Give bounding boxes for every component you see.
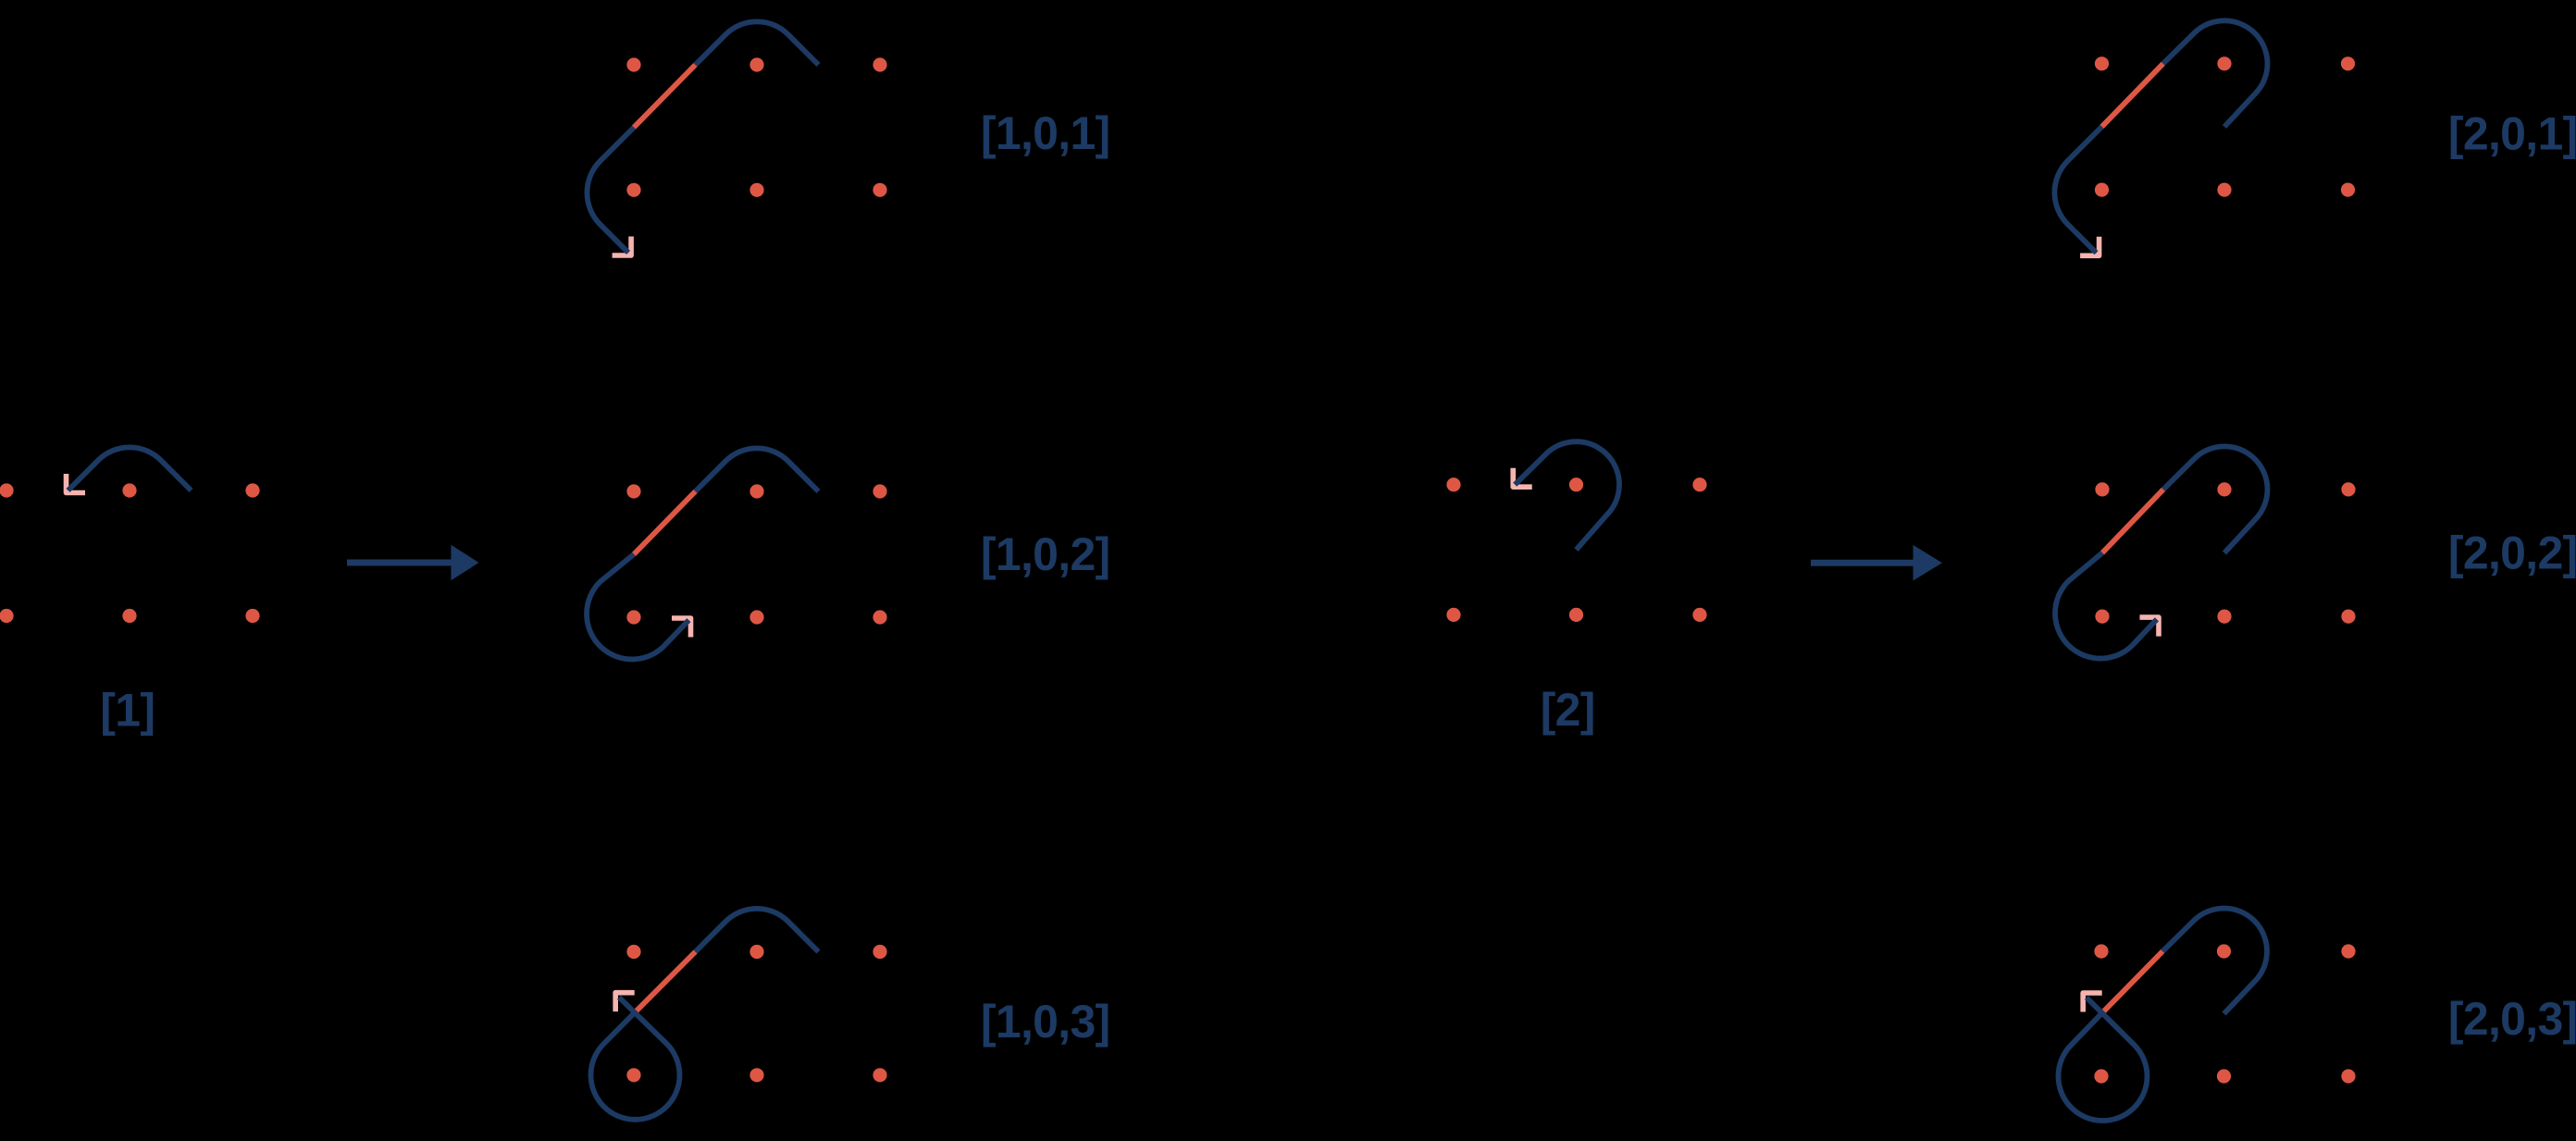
svg-text:[2]: [2]: [1541, 684, 1595, 736]
svg-text:[1,0,2]: [1,0,2]: [981, 528, 1110, 580]
svg-text:[2,0,3]: [2,0,3]: [2448, 993, 2576, 1045]
svg-text:[1,0,1]: [1,0,1]: [981, 107, 1110, 159]
svg-text:[2,0,2]: [2,0,2]: [2448, 527, 2576, 579]
svg-text:[1,0,3]: [1,0,3]: [981, 996, 1110, 1048]
svg-text:[2,0,1]: [2,0,1]: [2448, 108, 2576, 160]
svg-text:[1]: [1]: [100, 684, 155, 736]
